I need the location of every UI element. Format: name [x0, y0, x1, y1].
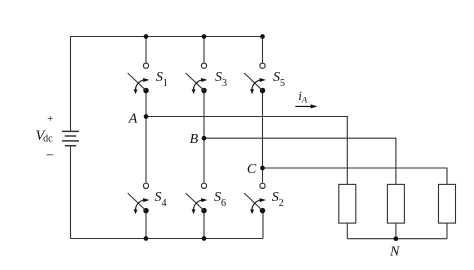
- svg-text:C: C: [247, 162, 257, 177]
- svg-text:A: A: [128, 111, 138, 126]
- svg-text:−: −: [46, 148, 54, 163]
- svg-text:N: N: [389, 244, 400, 259]
- svg-text:B: B: [190, 132, 199, 147]
- svg-text:+: +: [47, 113, 53, 125]
